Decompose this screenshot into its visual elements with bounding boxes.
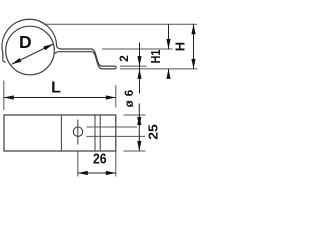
ext line 26 right <box>115 151 117 177</box>
ext line 25 bottom <box>124 150 146 152</box>
dimension H <box>193 24 195 69</box>
svg-text:H: H <box>173 42 188 51</box>
hole ø6 <box>73 127 82 136</box>
ext line hole tangent top (ø6) <box>87 126 138 128</box>
svg-text:26: 26 <box>93 151 107 168</box>
arrow ø6 down <box>137 117 141 127</box>
strap outer arc <box>2 19 91 60</box>
svg-text:ø 6: ø 6 <box>124 90 136 108</box>
svg-text:H1: H1 <box>149 49 163 63</box>
dimension 26 <box>78 172 116 174</box>
fold line bend 1 <box>94 115 96 151</box>
ext line H1 top <box>102 48 173 50</box>
strap end cap <box>115 66 116 69</box>
ext line top (H) <box>44 23 197 25</box>
strap inner upper line <box>55 52 92 54</box>
fold line bend 2 <box>99 115 101 151</box>
strap Z-bend down step <box>92 49 116 66</box>
svg-text:2: 2 <box>117 55 131 62</box>
ext line L right <box>115 85 117 108</box>
pipe circle <box>6 26 55 75</box>
hole vertical center line <box>77 120 79 145</box>
ext line 2 upper <box>120 65 147 67</box>
ext line hole tangent bottom (ø6) <box>87 135 146 137</box>
ext line mounting plane <box>120 68 198 70</box>
ext line hole center (26 left) <box>77 151 79 177</box>
dimension ø6 and 25 shared line <box>138 104 140 152</box>
dimension L <box>4 97 116 99</box>
svg-text:D: D <box>19 32 32 52</box>
arrow 25 up <box>137 115 141 125</box>
svg-text:L: L <box>51 80 61 97</box>
strap end flare <box>3 60 6 62</box>
svg-text:25: 25 <box>147 124 161 140</box>
ext line 25 top <box>124 114 146 116</box>
arrow 25 down <box>137 141 141 151</box>
dimension 2 <box>139 43 141 94</box>
dimension D arrow <box>12 44 54 64</box>
foot plate rectangle <box>4 115 116 151</box>
ext line L left <box>3 81 5 111</box>
dimension H1 <box>168 24 170 49</box>
fold line left <box>60 115 62 151</box>
